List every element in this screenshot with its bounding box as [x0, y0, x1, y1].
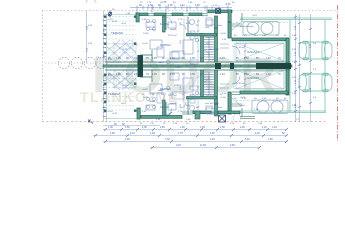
svg-text:1,05: 1,05 [200, 126, 205, 129]
svg-text:1,50: 1,50 [230, 123, 235, 125]
svg-text:1,10: 1,10 [220, 73, 225, 76]
garage right wall [286, 38, 289, 95]
tick column along building left edge [103, 16, 106, 117]
svg-text:+0,02: +0,02 [142, 43, 148, 45]
TERRACE top-left tile diamonds [106, 40, 138, 59]
svg-text:1,35: 1,35 [190, 73, 195, 76]
stair steps column top [204, 37, 214, 61]
scattered dimension texts top [139, 1, 231, 7]
terrace post squares top [104, 16, 136, 54]
svg-text:szél: szél [205, 103, 209, 105]
svg-text:+0,45: +0,45 [122, 85, 128, 87]
svg-text:közl.: közl. [218, 107, 223, 109]
door arcs top unit [165, 17, 209, 56]
svg-text:szél: szél [205, 27, 209, 29]
svg-text:4,20: 4,20 [292, 49, 297, 51]
svg-text:2,10: 2,10 [180, 4, 185, 7]
svg-text:1,45: 1,45 [152, 57, 157, 60]
kitchen chairs bottom [146, 97, 155, 108]
svg-text:70: 70 [278, 73, 281, 76]
watermark subtitle [80, 89, 189, 105]
svg-text:3,60: 3,60 [180, 39, 182, 44]
svg-text:1,80: 1,80 [188, 2, 193, 4]
svg-text:70: 70 [278, 57, 281, 60]
svg-text:4,20: 4,20 [292, 77, 297, 79]
svg-text:90: 90 [158, 4, 161, 7]
stairs diamond top unit [114, 44, 136, 62]
svg-text:1,50: 1,50 [180, 126, 185, 129]
svg-text:17,95 m²: 17,95 m² [236, 82, 245, 85]
svg-text:1,40: 1,40 [186, 119, 191, 121]
dimension chain above party wall [108, 57, 281, 60]
svg-text:17,95 m²: 17,95 m² [236, 46, 245, 49]
svg-text:1,45: 1,45 [152, 73, 157, 76]
svg-text:14,35: 14,35 [143, 97, 149, 99]
stairs diamond bottom unit [114, 70, 136, 88]
svg-text:1,50: 1,50 [220, 126, 225, 129]
bath fixtures top [190, 20, 214, 42]
extra scattered texts bottom unit [112, 85, 300, 121]
svg-text:1,35: 1,35 [190, 57, 195, 60]
garage X hatch top [236, 43, 284, 61]
dimension ticks bottom [94, 128, 288, 149]
svg-text:90: 90 [196, 25, 199, 27]
rotated dim texts left [87, 25, 106, 110]
svg-text:60: 60 [234, 35, 237, 37]
dashed line above garage [236, 22, 288, 24]
tree circles left [58, 57, 107, 68]
svg-text:GARÁZS: GARÁZS [247, 50, 259, 54]
svg-text:1,40: 1,40 [266, 73, 271, 76]
svg-text:1,38: 1,38 [142, 126, 147, 129]
car bottom [299, 73, 332, 92]
boundary dashed top [42, 10, 336, 12]
paved area right borders [240, 18, 332, 113]
svg-text:-0,47: -0,47 [252, 15, 258, 17]
svg-text:7,48: 7,48 [165, 138, 170, 141]
svg-text:2,10: 2,10 [130, 132, 135, 135]
svg-text:fürdő: fürdő [150, 28, 156, 31]
right house wall upper [228, 22, 231, 38]
svg-text:-0,45: -0,45 [112, 113, 118, 115]
stair steps column bottom [204, 72, 214, 95]
boundary dashed left [42, 11, 44, 122]
svg-text:2,20: 2,20 [210, 138, 215, 141]
corridor shelves [220, 44, 229, 88]
svg-text:3,0: 3,0 [313, 43, 317, 45]
svg-text:+0,00: +0,00 [220, 97, 226, 99]
garage inner offset rects [234, 44, 284, 89]
interior partitions top unit bath [140, 16, 188, 62]
car top [299, 41, 332, 60]
svg-text:térkő: térkő [240, 104, 246, 107]
svg-text:1,20: 1,20 [116, 73, 121, 76]
svg-text:1,85: 1,85 [180, 21, 182, 26]
bath fixtures bottom [190, 91, 214, 113]
bottom windows thin [167, 112, 255, 119]
svg-text:1,50: 1,50 [150, 123, 155, 125]
garage bottom wall [240, 91, 288, 94]
extra top dimension texts [140, 2, 235, 7]
boundary dashed bottom [42, 121, 326, 123]
svg-text:90: 90 [243, 123, 246, 125]
dimension verticals left [87, 11, 107, 122]
svg-text:4,50: 4,50 [88, 25, 93, 27]
svg-text:4,40: 4,40 [255, 132, 260, 135]
text row y94 bottom unit [142, 94, 223, 96]
garage interior vertical dim chain [244, 43, 246, 88]
svg-text:1,38: 1,38 [108, 126, 113, 129]
garage X hatch bottom [236, 70, 284, 89]
door arcs bottom unit [165, 76, 209, 115]
interior vertical walls bottom unit [163, 70, 218, 116]
svg-text:3,20: 3,20 [88, 43, 93, 45]
svg-text:60: 60 [284, 35, 287, 37]
svg-text:2,50: 2,50 [292, 93, 297, 95]
TERRACE bottom-left pergola dashes [105, 74, 136, 110]
utility symbol left [108, 11, 112, 18]
svg-text:1,50: 1,50 [125, 126, 130, 129]
bottom under-wall text row [140, 123, 263, 125]
svg-text:90: 90 [140, 123, 143, 125]
furniture bottom unit [146, 73, 212, 114]
extra furniture bottom unit [157, 86, 198, 103]
svg-text:3,30: 3,30 [210, 132, 215, 135]
TERRACE bottom-left tile diamonds [106, 71, 136, 90]
svg-text:3,10: 3,10 [213, 5, 218, 7]
right dimension ticks [294, 16, 312, 112]
red lot line right [337, 5, 339, 141]
top dim tick crossings [143, 6, 219, 10]
planter box right bottom [252, 100, 288, 114]
svg-text:75: 75 [203, 2, 206, 4]
svg-text:GARÁZS: GARÁZS [247, 76, 259, 80]
svg-text:16x17,6: 16x17,6 [206, 95, 215, 97]
extra scattered texts top unit [112, 9, 227, 51]
svg-text:1,75: 1,75 [178, 132, 183, 135]
entry niche walls between house and garage top [232, 13, 242, 117]
svg-text:3,10: 3,10 [87, 47, 89, 52]
svg-text:FÜRDŐ: FÜRDŐ [174, 84, 182, 87]
svg-text:-0,47: -0,47 [240, 97, 246, 99]
svg-text:1,20: 1,20 [116, 57, 121, 60]
svg-text:1,98: 1,98 [110, 132, 115, 135]
svg-text:2,26: 2,26 [240, 126, 245, 129]
svg-text:TERASZ: TERASZ [108, 92, 120, 96]
svg-text:-0,02: -0,02 [121, 103, 127, 105]
svg-text:90: 90 [232, 2, 235, 4]
svg-text:1,10: 1,10 [220, 57, 225, 60]
svg-text:5,40: 5,40 [245, 138, 250, 141]
right house wall lower [228, 92, 231, 114]
svg-text:2,50: 2,50 [292, 35, 297, 37]
planter box right top [243, 22, 279, 36]
svg-text:2,40: 2,40 [156, 119, 161, 121]
svg-text:2,60: 2,60 [244, 73, 249, 76]
garage bottom dim text row [234, 98, 287, 100]
top area small texts above garage [240, 15, 258, 28]
svg-text:14,35: 14,35 [143, 33, 149, 35]
svg-text:1,40: 1,40 [262, 126, 267, 129]
svg-text:2,48: 2,48 [125, 138, 130, 141]
svg-text:90: 90 [173, 2, 176, 4]
top wall run [136, 10, 232, 22]
north symbol arc top [86, 0, 96, 3]
svg-text:3,0: 3,0 [313, 97, 317, 99]
svg-text:4,48: 4,48 [150, 132, 155, 135]
svg-text:60: 60 [282, 132, 285, 135]
svg-text:1,40: 1,40 [266, 57, 271, 60]
svg-text:-0,45: -0,45 [112, 21, 118, 23]
svg-text:TERASZ: TERASZ [111, 31, 123, 35]
scattered dimension texts bottom rows [108, 123, 285, 147]
svg-text:2,42: 2,42 [142, 111, 147, 113]
svg-text:2,40: 2,40 [258, 123, 263, 125]
interior vertical dim chain x184 [183, 18, 185, 114]
svg-text:-0,02: -0,02 [121, 23, 127, 25]
svg-text:16x17,6: 16x17,6 [206, 37, 215, 39]
svg-text:1,50: 1,50 [173, 123, 178, 125]
svg-text:Konyha: Konyha [160, 105, 169, 109]
svg-text:+0,45: +0,45 [122, 49, 128, 51]
svg-text:75: 75 [140, 2, 143, 4]
dimension lines bottom [93, 126, 287, 148]
small marker top path [216, 9, 221, 14]
interior vertical walls top unit [163, 16, 218, 62]
svg-text:2,05: 2,05 [134, 73, 139, 76]
svg-text:ebédlő: ebédlő [170, 29, 177, 31]
svg-text:1,20: 1,20 [272, 126, 277, 129]
svg-text:2,10: 2,10 [222, 39, 227, 41]
svg-text:5,5: 5,5 [313, 69, 317, 71]
svg-text:HÁLÓ: HÁLÓ [158, 61, 164, 64]
svg-text:+2,78: +2,78 [160, 1, 167, 4]
extra furniture top unit [157, 47, 198, 64]
svg-text:2,10: 2,10 [170, 73, 175, 76]
svg-text:1,50: 1,50 [148, 4, 153, 7]
interior partitions bottom unit bath [140, 70, 188, 116]
door arcs garage left [232, 46, 240, 84]
svg-text:+0,02: +0,02 [142, 89, 148, 91]
svg-text:2,85: 2,85 [160, 126, 165, 129]
svg-text:WC: WC [190, 99, 194, 101]
garage top wall [232, 38, 288, 41]
svg-text:2,05: 2,05 [134, 57, 139, 60]
party wall hatch ticks [110, 65, 249, 67]
svg-text:ELŐTÉR: ELŐTÉR [210, 48, 219, 51]
tree row left dotted guide [45, 62, 102, 64]
central party wall band [103, 62, 292, 70]
svg-text:90: 90 [139, 4, 142, 7]
svg-text:1,60: 1,60 [268, 138, 273, 141]
party wall dark nodes [138, 55, 292, 77]
svg-text:FÜRDŐ: FÜRDŐ [174, 66, 182, 69]
svg-text:11,50: 11,50 [200, 144, 206, 147]
svg-text:1,50: 1,50 [168, 4, 173, 7]
svg-text:90: 90 [196, 107, 199, 109]
rotated dim texts right [295, 25, 312, 108]
boundary marker bottom-left [88, 120, 93, 124]
dashed line below garage [236, 100, 288, 102]
chimney dark square bottom [219, 115, 226, 122]
terrace post squares bottom [104, 74, 136, 112]
interior vertical dim chain x198 [197, 18, 199, 114]
kitchen chairs top [146, 19, 155, 30]
svg-text:ELŐTÉR: ELŐTÉR [210, 102, 219, 105]
svg-text:3,40: 3,40 [176, 144, 181, 147]
dimension chain below party wall [108, 73, 281, 76]
svg-text:2,10: 2,10 [170, 57, 175, 60]
svg-text:25,10 m²: 25,10 m² [168, 34, 177, 37]
svg-text:2,80: 2,80 [230, 144, 235, 147]
svg-text:HÁLÓ: HÁLÓ [158, 89, 164, 92]
svg-text:térkő burkolat: térkő burkolat [240, 25, 254, 28]
svg-text:fürdő: fürdő [150, 100, 156, 103]
svg-text:75: 75 [163, 123, 166, 125]
svg-text:közl.: közl. [218, 25, 223, 27]
svg-text:-0,45: -0,45 [225, 3, 231, 6]
bottom small dashed circle [233, 114, 241, 122]
svg-text:90: 90 [186, 123, 189, 125]
top windows thin [148, 14, 208, 16]
svg-text:2,60: 2,60 [244, 57, 249, 60]
svg-text:1,75: 1,75 [178, 19, 183, 21]
svg-text:NAPPALI: NAPPALI [160, 43, 171, 47]
furniture top unit [146, 18, 212, 59]
svg-text:+0,00: +0,00 [220, 33, 226, 35]
dimension verticals right [296, 14, 311, 122]
scattered tiny texts inside plan [88, 19, 317, 113]
svg-text:Konyha: Konyha [160, 22, 169, 26]
svg-text:WC: WC [190, 33, 194, 35]
garage top dim text row [234, 35, 287, 37]
bottom wall pier [195, 111, 200, 119]
dimension line top [130, 6, 232, 14]
TERRACE top-left pergola dashes [105, 17, 136, 58]
svg-text:ebédlő: ebédlő [170, 103, 177, 105]
bottom wall run [137, 108, 240, 119]
terrace top edge line [104, 14, 136, 16]
svg-text:30: 30 [276, 35, 279, 37]
entry door swings [232, 23, 240, 105]
watermark big letters [92, 47, 278, 103]
svg-text:1,50: 1,50 [195, 4, 200, 7]
